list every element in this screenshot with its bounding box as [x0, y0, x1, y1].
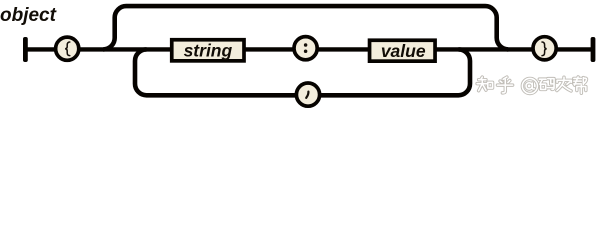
svg-text:string: string	[184, 40, 233, 60]
svg-text:object: object	[0, 5, 57, 26]
svg-text:value: value	[381, 41, 426, 61]
